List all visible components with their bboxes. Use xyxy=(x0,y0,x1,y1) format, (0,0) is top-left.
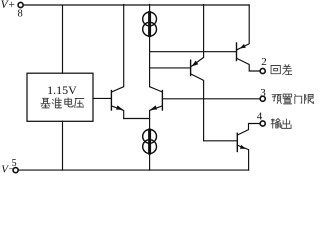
svg-text:4: 4 xyxy=(257,111,263,123)
transistor Q2 right of differential pair xyxy=(150,87,163,130)
terminal pin 3 xyxy=(260,96,265,101)
wire node A to base of Q3 xyxy=(150,67,191,69)
reference box U1 1.15V xyxy=(27,73,93,121)
wire emitter junction of differential pair xyxy=(124,118,150,120)
svg-text:2: 2 xyxy=(261,56,267,68)
svg-text:1.15V: 1.15V xyxy=(47,83,77,97)
wire bottom V- rail xyxy=(18,169,249,171)
label glyph ji of jizhun dianya xyxy=(41,98,51,108)
wire top V+ rail xyxy=(23,4,249,6)
terminal V- pin 5 xyxy=(13,168,18,173)
label glyph yu of yuzhi menxian xyxy=(272,94,282,103)
wire Q3 collector to base of Q4 xyxy=(204,140,238,142)
svg-text:V+: V+ xyxy=(1,0,16,11)
transistor Q1 left of differential pair xyxy=(111,4,123,118)
transistor Q5 PNP hysteresis xyxy=(237,5,261,71)
svg-text:3: 3 xyxy=(260,87,266,99)
label glyph chu of shuchu xyxy=(282,119,291,129)
label glyph ya of jizhun dianya xyxy=(75,99,85,108)
wire reference box bottom to V- rail xyxy=(62,121,64,170)
wire V+ rail to reference box top xyxy=(62,5,64,73)
wire pin 3 to base of Q2 xyxy=(162,98,260,100)
label glyph dian of jizhun dianya xyxy=(65,98,73,107)
svg-text:8: 8 xyxy=(18,9,23,20)
terminal pin 4 xyxy=(260,121,265,126)
svg-text:5: 5 xyxy=(12,158,17,169)
current source I2 xyxy=(143,130,157,171)
current source I1 xyxy=(143,12,157,36)
wire node A to base of Q5 xyxy=(150,51,237,53)
transistor Q4 output NPN xyxy=(237,124,260,171)
wire base of Q1 from reference box xyxy=(93,97,111,99)
label glyph shu of shuchu xyxy=(271,118,281,128)
label glyph zhi of yuzhi menxian xyxy=(283,94,292,104)
label glyph men of yuzhi menxian xyxy=(295,94,302,104)
terminal pin 2 xyxy=(260,68,265,73)
label glyph cha of huicha xyxy=(282,64,292,74)
label glyph hui of huicha xyxy=(271,65,280,73)
terminal V+ pin 8 xyxy=(18,2,23,7)
label glyph xian of yuzhi menxian xyxy=(305,94,314,104)
wire V+ rail through current source I1 to Q2 collector xyxy=(149,4,151,86)
label glyph zhun of jizhun dianya xyxy=(52,98,62,108)
transistor Q3 middle PNP xyxy=(191,4,204,140)
